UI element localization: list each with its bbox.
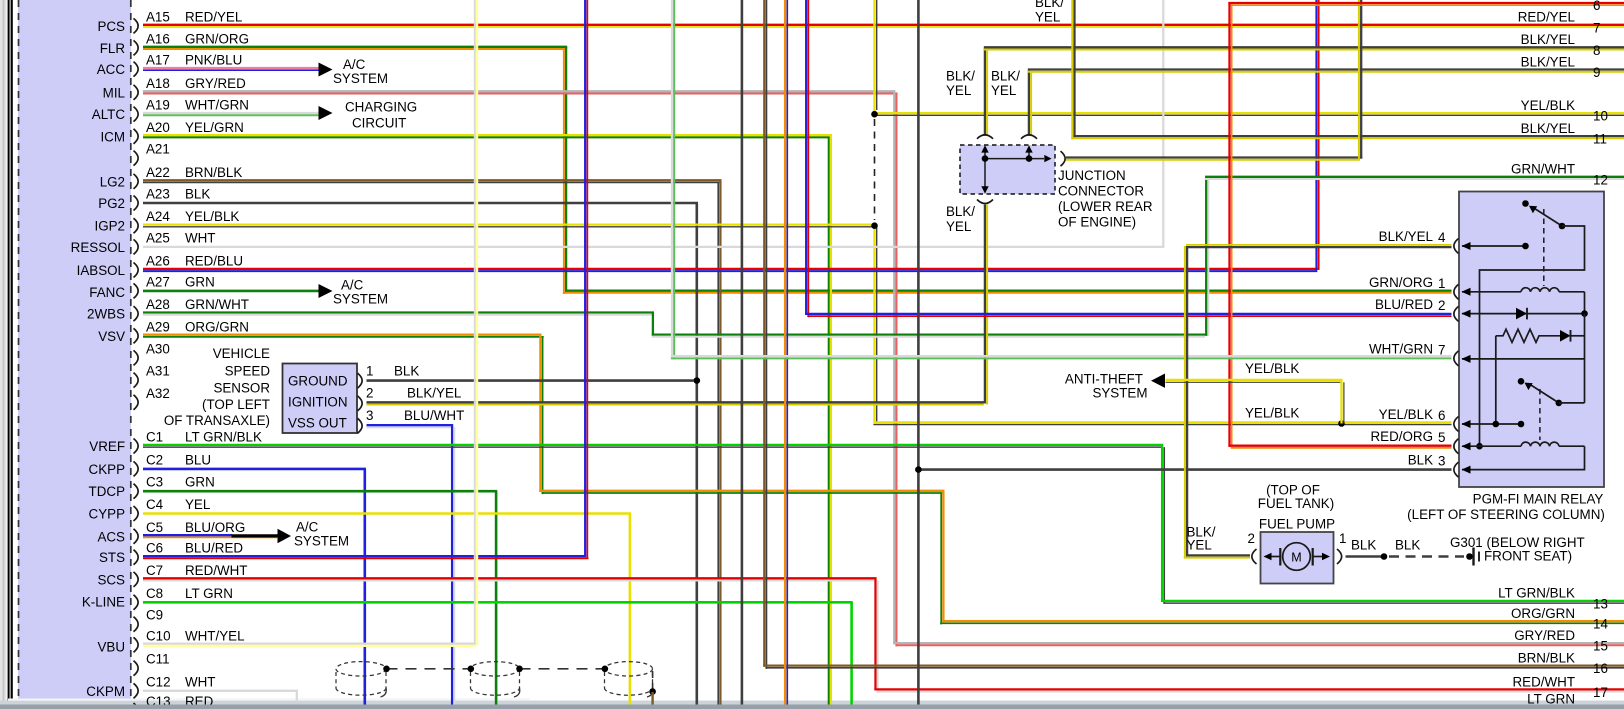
svg-text:BLU/RED: BLU/RED: [1375, 297, 1433, 312]
svg-text:C10: C10: [146, 628, 171, 643]
svg-text:CKPM: CKPM: [86, 684, 125, 699]
svg-text:6: 6: [1438, 408, 1445, 423]
wire A15 RED/YEL to edge 7: [143, 25, 1624, 27]
fuel pump pin labels: [1248, 531, 1347, 546]
arrow to A/C system (C5): [278, 529, 292, 543]
svg-text:2WBS: 2WBS: [87, 307, 125, 322]
svg-text:OF ENGINE): OF ENGINE): [1058, 215, 1136, 230]
relay switch 1 feed path: [1480, 226, 1585, 446]
left page edge strip: [0, 0, 7, 709]
svg-text:A/C: A/C: [343, 57, 366, 72]
svg-text:YEL/BLK: YEL/BLK: [1245, 406, 1299, 421]
svg-text:A31: A31: [146, 364, 170, 379]
label JUNCTION CONNECTOR (LOWER REAR OF ENGINE): [1058, 168, 1153, 230]
svg-text:C11: C11: [146, 652, 170, 667]
svg-text:YEL/BLK: YEL/BLK: [185, 209, 239, 224]
svg-text:A24: A24: [146, 209, 170, 224]
svg-text:IGP2: IGP2: [94, 219, 125, 234]
arrow to charging circuit: [319, 106, 333, 120]
shield drain dashed drop: [652, 671, 654, 689]
svg-text:C8: C8: [146, 586, 163, 601]
svg-text:SYSTEM: SYSTEM: [1092, 386, 1147, 401]
VSS pin 1 bracket: [358, 373, 363, 388]
shield symbol 2 (around BLU/WHT and C3 GRN): [471, 662, 520, 697]
label BLK (pump side): [1351, 538, 1376, 553]
svg-text:9: 9: [1593, 65, 1600, 80]
svg-text:YEL: YEL: [1035, 10, 1060, 25]
junction dot A23/VSS ground: [694, 377, 701, 384]
svg-text:C6: C6: [146, 541, 163, 556]
svg-text:GRN/WHT: GRN/WHT: [185, 297, 249, 312]
wire A25 WHT up off page: [143, 0, 1164, 247]
wire BLK/YEL from top to edge 11: [1071, 0, 1624, 139]
wire fuel pump pin 1 BLK to ground: [1346, 555, 1465, 557]
wire C10 WHT/YEL up off page: [143, 0, 478, 646]
relay pin 4 contact dot: [1522, 243, 1529, 250]
relay pin 6 internal lead: [1462, 420, 1522, 428]
svg-text:BRN/BLK: BRN/BLK: [1518, 651, 1575, 666]
vehicle speed sensor description text: [164, 346, 270, 428]
label ANTI-THEFT SYSTEM: [1065, 372, 1148, 401]
junction connector output bracket: [1061, 151, 1066, 166]
relay resistor and diode branch: [1496, 329, 1585, 424]
svg-text:C2: C2: [146, 452, 163, 467]
shield drain dashed link 2: [520, 668, 605, 670]
fuel pump motor symbol: [1264, 543, 1331, 571]
junction connector box: [960, 145, 1055, 194]
svg-text:YEL: YEL: [1187, 538, 1212, 553]
svg-text:12: 12: [1593, 172, 1608, 187]
svg-text:PGM-FI MAIN RELAY: PGM-FI MAIN RELAY: [1473, 492, 1604, 507]
relay right internal bus: [1584, 314, 1586, 403]
svg-text:SCS: SCS: [97, 572, 125, 587]
svg-text:6: 6: [1593, 0, 1600, 13]
bottom window dark edge strip: [0, 705, 1624, 709]
svg-text:FUEL PUMP: FUEL PUMP: [1259, 517, 1335, 532]
wire A17 PNK/BLU to A/C system: [143, 68, 321, 70]
junction dot YEL/BLK lower: [871, 222, 878, 229]
shield drain dashed link 1: [387, 668, 471, 670]
svg-text:3: 3: [366, 408, 373, 423]
svg-text:BLK/YEL: BLK/YEL: [407, 386, 461, 401]
svg-text:A22: A22: [146, 165, 170, 180]
svg-text:GRN/WHT: GRN/WHT: [1511, 162, 1575, 177]
relay pin brackets: [1454, 239, 1459, 478]
svg-text:YEL/BLK: YEL/BLK: [1521, 98, 1575, 113]
svg-text:A21: A21: [146, 142, 170, 157]
wire C12 WHT down off page: [143, 691, 298, 702]
svg-text:A18: A18: [146, 76, 170, 91]
label A/C SYSTEM (A27): [333, 278, 388, 307]
fuel pump pin 1 bracket: [1337, 549, 1342, 564]
svg-text:BLK: BLK: [1408, 453, 1433, 468]
svg-text:M: M: [1291, 551, 1301, 565]
svg-text:13: 13: [1593, 596, 1608, 611]
arrow to A/C system (A27): [319, 284, 333, 298]
svg-text:A20: A20: [146, 120, 170, 135]
svg-text:WHT: WHT: [185, 230, 216, 245]
junction connector top caps: [977, 135, 993, 139]
svg-text:LG2: LG2: [100, 174, 125, 189]
svg-text:FUEL TANK): FUEL TANK): [1258, 496, 1334, 511]
svg-text:YEL: YEL: [991, 83, 1016, 98]
wire A19 WHT/GRN to charging circuit: [143, 113, 319, 115]
svg-text:PG2: PG2: [98, 196, 125, 211]
svg-text:14: 14: [1593, 617, 1608, 632]
svg-text:1: 1: [366, 364, 373, 379]
junction dot BLK: [1381, 553, 1388, 560]
svg-text:C9: C9: [146, 608, 163, 623]
left double black border line: [8, 0, 10, 709]
module pin function labels: [71, 19, 126, 699]
wire A20 YEL/GRN down off page: [143, 135, 832, 709]
relay pin labels: [1369, 229, 1446, 469]
svg-text:YEL: YEL: [185, 497, 210, 512]
relay pin 4 internal lead: [1462, 242, 1527, 250]
svg-text:A15: A15: [146, 9, 170, 24]
label BLK/YEL (junction left A): [946, 69, 975, 99]
junction connector bottom cap: [977, 200, 993, 204]
svg-text:FLR: FLR: [100, 41, 126, 56]
svg-text:8: 8: [1593, 43, 1600, 58]
junction dot BLK relay pin 3: [915, 466, 922, 473]
svg-text:BLU: BLU: [185, 452, 211, 467]
wire BLK/YEL relay pin 4 to fuel pump: [1184, 245, 1452, 558]
svg-text:STS: STS: [99, 550, 125, 565]
wire A23 BLK down off page: [143, 203, 698, 709]
label A/C SYSTEM (A17): [333, 57, 388, 86]
svg-text:TDCP: TDCP: [89, 484, 126, 499]
svg-text:1: 1: [1339, 531, 1346, 546]
junction connector internal arrows: [981, 145, 1051, 193]
label PGM-FI MAIN RELAY: [1407, 492, 1605, 523]
relay coil 2 (pin 5 row) and pin 3 return: [1462, 442, 1585, 474]
PGM-FI main relay box: [1459, 192, 1604, 488]
svg-text:GRN: GRN: [185, 274, 215, 289]
svg-text:(LEFT OF STEERING COLUMN): (LEFT OF STEERING COLUMN): [1407, 507, 1605, 522]
svg-text:15: 15: [1593, 639, 1608, 654]
svg-text:VSV: VSV: [98, 329, 125, 344]
svg-text:CKPP: CKPP: [89, 462, 126, 477]
wire A24 YEL/BLK to edge 10 and relay pin 6: [143, 0, 1624, 425]
svg-text:FRONT SEAT): FRONT SEAT): [1484, 549, 1572, 564]
svg-text:BLK: BLK: [394, 364, 419, 379]
svg-text:A30: A30: [146, 341, 170, 356]
relay coil 2 feed dot: [1476, 443, 1483, 450]
wire C8 LT GRN down off page: [143, 602, 853, 709]
svg-text:A/C: A/C: [296, 520, 319, 535]
wire VSS pin 2 BLK/YEL to junction connector: [367, 205, 988, 405]
svg-text:ICM: ICM: [100, 129, 125, 144]
svg-text:RED/WHT: RED/WHT: [1513, 674, 1575, 689]
relay switch 1: [1522, 200, 1565, 229]
svg-text:BLK/: BLK/: [991, 69, 1020, 84]
svg-text:(LOWER REAR: (LOWER REAR: [1058, 199, 1153, 214]
shield drain dot and stub: [649, 688, 656, 709]
ECM/PCM module column (lavender): [18, 0, 131, 709]
svg-text:A19: A19: [146, 98, 170, 113]
svg-text:RED/ORG: RED/ORG: [1371, 429, 1434, 444]
fuel pump box: [1261, 532, 1334, 584]
svg-text:BLK/: BLK/: [946, 69, 975, 84]
wire WHT/GRN from top to relay pin 7: [671, 0, 1452, 360]
svg-text:7: 7: [1593, 20, 1600, 35]
fuel pump motor M text: [1291, 551, 1301, 565]
svg-text:PNK/BLU: PNK/BLU: [185, 53, 242, 68]
svg-text:C5: C5: [146, 520, 163, 535]
vehicle speed sensor box: [283, 364, 358, 434]
junction connector node dots: [982, 155, 989, 162]
wire VSS pin 1 BLK to A23 junction: [367, 379, 695, 382]
relay pin 2 internal lead with diode: [1462, 308, 1585, 320]
pin id and wire colour labels: [146, 9, 262, 709]
svg-text:BLU/RED: BLU/RED: [185, 541, 243, 556]
pass-through wire BRN/BLK to edge 16: [763, 0, 1624, 669]
VSS box pin names: [288, 374, 348, 431]
svg-text:VEHICLE: VEHICLE: [213, 346, 270, 361]
svg-text:RED/YEL: RED/YEL: [185, 9, 242, 24]
svg-text:2: 2: [1438, 298, 1445, 313]
shield symbol 1 (around C2 BLU): [336, 662, 386, 697]
svg-text:ORG/GRN: ORG/GRN: [1511, 606, 1575, 621]
svg-text:3: 3: [1438, 454, 1445, 469]
relay switch 2: [1518, 378, 1585, 406]
svg-text:FANC: FANC: [89, 285, 125, 300]
relay pin 7 internal lead: [1462, 355, 1585, 363]
svg-text:BLU/ORG: BLU/ORG: [185, 520, 245, 535]
svg-text:2: 2: [366, 386, 373, 401]
svg-text:A16: A16: [146, 31, 170, 46]
relay coil 1 (pin 1 row): [1462, 288, 1585, 314]
svg-text:17: 17: [1593, 685, 1608, 700]
wire A22 BRN/BLK down off page: [143, 180, 722, 709]
svg-text:MIL: MIL: [103, 85, 125, 100]
wire C5 BLU/ORG to A/C system: [143, 535, 278, 537]
svg-text:YEL: YEL: [946, 219, 971, 234]
connector pin brackets (ECM connector): [134, 18, 139, 709]
svg-text:IGNITION: IGNITION: [288, 395, 348, 410]
svg-text:LT GRN/BLK: LT GRN/BLK: [185, 430, 262, 445]
wire A26 RED/BLU up off page: [143, 0, 1320, 271]
label CHARGING CIRCUIT: [345, 100, 417, 131]
svg-text:4: 4: [1438, 230, 1446, 245]
bottom window light band: [0, 701, 1624, 709]
svg-text:WHT: WHT: [185, 674, 216, 689]
svg-text:CIRCUIT: CIRCUIT: [352, 116, 406, 131]
svg-text:GRN: GRN: [185, 475, 215, 490]
label YEL/BLK (anti-theft lower): [1245, 406, 1299, 421]
svg-text:GRN/ORG: GRN/ORG: [185, 31, 249, 46]
svg-text:A28: A28: [146, 297, 170, 312]
svg-text:16: 16: [1593, 661, 1608, 676]
wire BLU/RED from top to relay pin 2: [805, 0, 1451, 317]
svg-text:BRN/BLK: BRN/BLK: [185, 165, 242, 180]
svg-text:7: 7: [1438, 342, 1445, 357]
VSS pin 2 bracket: [358, 396, 363, 411]
svg-text:2: 2: [1248, 531, 1255, 546]
junction dot anti-theft branch: [1338, 420, 1345, 427]
svg-text:RESSOL: RESSOL: [71, 240, 125, 255]
svg-text:BLK/: BLK/: [946, 204, 975, 219]
svg-text:A17: A17: [146, 53, 170, 68]
svg-text:(TOP LEFT: (TOP LEFT: [202, 397, 270, 412]
wire C3 GRN down off page: [143, 491, 497, 709]
right edge wire labels and circuit numbers: [1498, 0, 1608, 706]
svg-text:LT GRN: LT GRN: [1527, 691, 1575, 706]
svg-text:LT GRN/BLK: LT GRN/BLK: [1498, 586, 1575, 601]
label YEL/BLK (anti-theft upper): [1245, 361, 1299, 376]
svg-text:CHARGING: CHARGING: [345, 100, 417, 115]
svg-text:C12: C12: [146, 674, 171, 689]
arrow to anti-theft system: [1151, 374, 1165, 388]
svg-text:K-LINE: K-LINE: [82, 594, 125, 609]
svg-text:WHT/GRN: WHT/GRN: [1369, 341, 1433, 356]
wire junction connector pin B BLK/YEL to edge 9: [1028, 70, 1624, 136]
label BLK/YEL (top edge): [1035, 0, 1064, 25]
VSS pin 3 bracket: [358, 418, 363, 433]
junction dot at ground: [1466, 553, 1473, 560]
svg-text:BLK: BLK: [1351, 538, 1376, 553]
label BLK/YEL (junction left B): [991, 69, 1020, 99]
junction dot YEL/BLK upper: [871, 111, 878, 118]
svg-text:C1: C1: [146, 430, 163, 445]
relay pin 6 contact dots: [1493, 421, 1500, 428]
pass-through wire BLK (x918) to relay pin 3: [918, 0, 1451, 709]
label BLK/YEL at fuel pump: [1187, 525, 1216, 553]
svg-text:BLK/: BLK/: [1035, 0, 1064, 10]
svg-text:ACC: ACC: [97, 62, 126, 77]
svg-text:LT GRN: LT GRN: [185, 586, 233, 601]
svg-text:GRY/RED: GRY/RED: [185, 76, 246, 91]
fuel pump pin 2 bracket: [1252, 549, 1257, 564]
svg-text:RED/WHT: RED/WHT: [185, 563, 247, 578]
ground G301 symbol: [1474, 548, 1480, 566]
pass-through wire BLK (x742): [741, 0, 744, 709]
relay pin 2 junction dot: [1581, 310, 1588, 317]
label A/C SYSTEM (C5): [294, 520, 349, 549]
wire RED/ORG from edge 6 to relay pin 5: [1228, 2, 1624, 448]
svg-text:SPEED: SPEED: [225, 364, 271, 379]
wire C4 YEL down off page: [143, 514, 631, 709]
svg-text:10: 10: [1593, 109, 1608, 124]
svg-text:IABSOL: IABSOL: [77, 263, 125, 278]
shield symbol 3 (around C4 YEL): [605, 662, 653, 697]
wire VSS pin 3 BLU/WHT down off page: [367, 425, 455, 709]
svg-text:JUNCTION: JUNCTION: [1058, 168, 1126, 183]
svg-text:C4: C4: [146, 497, 164, 512]
label fuel pump location: [1258, 483, 1335, 532]
svg-text:A/C: A/C: [341, 278, 364, 293]
svg-text:ORG/GRN: ORG/GRN: [185, 319, 249, 334]
svg-text:GRN/ORG: GRN/ORG: [1369, 275, 1433, 290]
wire C6 BLU/RED up off page: [143, 0, 589, 558]
svg-text:BLU/WHT: BLU/WHT: [404, 408, 464, 423]
label BLK/YEL (junction bottom): [946, 204, 975, 234]
svg-text:WHT/GRN: WHT/GRN: [185, 98, 249, 113]
svg-text:RED/YEL: RED/YEL: [1518, 10, 1575, 25]
pass-through wire ORG/BLU (x786): [785, 0, 787, 709]
svg-text:1: 1: [1438, 276, 1445, 291]
svg-text:BLK: BLK: [185, 187, 210, 202]
svg-text:SYSTEM: SYSTEM: [333, 71, 388, 86]
VSS pin labels: [366, 364, 464, 424]
wire anti-theft YEL/BLK branch: [1166, 380, 1344, 424]
wire C1 LT GRN/BLK to edge 13: [143, 445, 1624, 603]
wire junction connector output BLK/YEL up off page: [1066, 0, 1362, 160]
svg-text:A23: A23: [146, 187, 170, 202]
wire A27 GRN to A/C system: [143, 290, 319, 293]
svg-text:BLK/YEL: BLK/YEL: [1521, 54, 1575, 69]
shield junction dots: [383, 666, 608, 673]
svg-text:C3: C3: [146, 475, 163, 490]
wire A28 GRN/WHT to edge 12: [143, 177, 1624, 337]
svg-text:VBU: VBU: [97, 639, 125, 654]
svg-text:A25: A25: [146, 230, 170, 245]
wire C7 RED/WHT to edge 17: [143, 578, 1624, 692]
svg-text:VREF: VREF: [89, 439, 125, 454]
relay switch 2 actuation dashed link: [1539, 389, 1541, 440]
arrow to A/C system (A17): [319, 63, 333, 77]
svg-text:YEL: YEL: [946, 83, 971, 98]
svg-text:SYSTEM: SYSTEM: [333, 292, 388, 307]
svg-text:C7: C7: [146, 563, 163, 578]
wire A29 ORG/GRN to edge 14: [143, 335, 1624, 625]
svg-text:VSS OUT: VSS OUT: [288, 416, 347, 431]
svg-text:11: 11: [1593, 132, 1607, 147]
label G301 (BELOW RIGHT FRONT SEAT): [1450, 535, 1585, 564]
svg-text:GRY/RED: GRY/RED: [1514, 628, 1575, 643]
wire A18 GRY/RED to edge 15: [143, 91, 1624, 646]
svg-text:RED/BLU: RED/BLU: [185, 254, 243, 269]
svg-text:SYSTEM: SYSTEM: [294, 534, 349, 549]
svg-text:BLK/YEL: BLK/YEL: [1521, 32, 1575, 47]
wire C2 BLU down off page: [143, 469, 366, 709]
wire A16 GRN/ORG to relay pin 1: [143, 47, 1452, 294]
svg-text:CYPP: CYPP: [89, 507, 126, 522]
svg-text:ANTI-THEFT: ANTI-THEFT: [1065, 372, 1143, 387]
svg-text:PCS: PCS: [97, 19, 125, 34]
in-line connector dashed link (YEL/BLK): [874, 119, 876, 220]
svg-text:BLK: BLK: [1395, 538, 1420, 553]
svg-text:ACS: ACS: [97, 529, 125, 544]
svg-text:A32: A32: [146, 386, 170, 401]
svg-text:SENSOR: SENSOR: [213, 381, 270, 396]
svg-text:A27: A27: [146, 274, 170, 289]
relay switch 1 actuation dashed link: [1543, 209, 1545, 286]
svg-text:YEL/BLK: YEL/BLK: [1245, 361, 1299, 376]
svg-text:BLK/YEL: BLK/YEL: [1521, 121, 1575, 136]
svg-text:ALTC: ALTC: [92, 107, 126, 122]
svg-text:OF TRANSAXLE): OF TRANSAXLE): [164, 413, 270, 428]
svg-text:BLK/YEL: BLK/YEL: [1379, 229, 1433, 244]
svg-text:CONNECTOR: CONNECTOR: [1058, 184, 1144, 199]
svg-text:A29: A29: [146, 319, 170, 334]
svg-text:5: 5: [1438, 430, 1445, 445]
wire junction connector pin A BLK/YEL to edge 8: [984, 47, 1624, 136]
svg-text:A26: A26: [146, 254, 170, 269]
svg-text:GROUND: GROUND: [288, 374, 348, 389]
svg-text:YEL/BLK: YEL/BLK: [1379, 407, 1433, 422]
label BLK (ground side): [1395, 538, 1420, 553]
svg-text:WHT/YEL: WHT/YEL: [185, 628, 245, 643]
svg-text:YEL/GRN: YEL/GRN: [185, 120, 244, 135]
